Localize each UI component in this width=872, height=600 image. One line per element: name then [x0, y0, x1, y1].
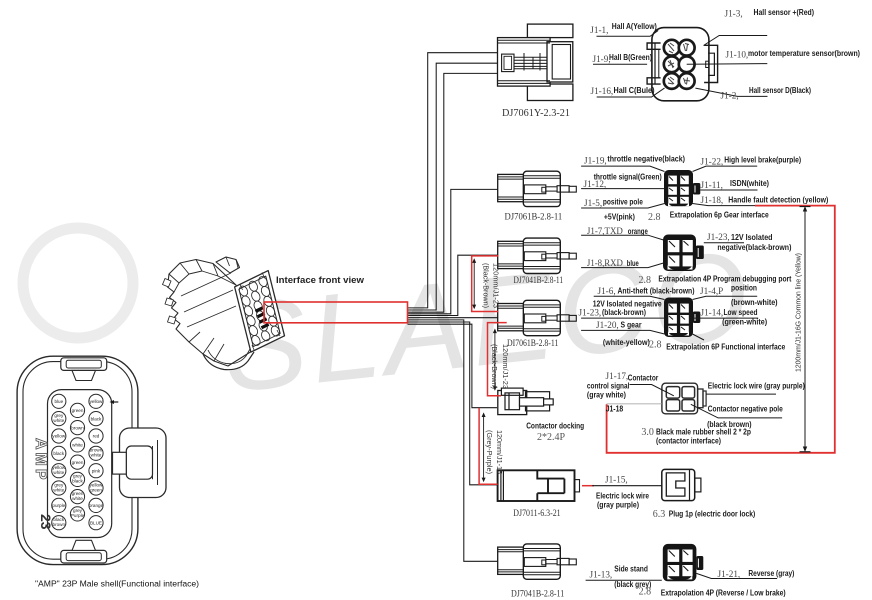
line J1-14: [694, 317, 759, 319]
watermark: [23, 225, 759, 419]
svg-text:J1-8,RXD: J1-8,RXD: [587, 258, 623, 268]
red wire 120mm J1-15 loop C: [479, 408, 497, 484]
bottom row label lines: [586, 573, 778, 580]
svg-text:white: white: [53, 418, 64, 423]
svg-text:ISDN(white): ISDN(white): [730, 179, 769, 188]
line J1-9: [593, 63, 647, 65]
svg-text:(black-brown): (black-brown): [602, 308, 646, 317]
svg-text:J1-11,: J1-11,: [701, 180, 723, 190]
line J1-20: [581, 330, 664, 334]
svg-text:black: black: [72, 479, 83, 484]
wire functional-row: [408, 317, 499, 319]
debug row label lines: [581, 235, 744, 267]
svg-text:Extrapolation 4P Program debug: Extrapolation 4P Program debugging port: [658, 275, 791, 284]
line J1-22: [693, 166, 758, 171]
svg-text:Hall A(Yellow): Hall A(Yellow): [612, 22, 657, 31]
svg-text:J1-1,: J1-1,: [590, 25, 608, 35]
svg-text:S gear: S gear: [621, 321, 642, 330]
svg-text:Black male rubber shell 2 * 2p: Black male rubber shell 2 * 2p: [656, 428, 751, 437]
wire J1-hall A (top connector to harness): [408, 53, 498, 308]
face corner marks: [240, 273, 280, 352]
svg-text:Side stand: Side stand: [614, 565, 648, 574]
connector Extrapolation 4P Program debugging port: [663, 235, 704, 272]
connector DJ7061B-2.8-11 row3: [498, 300, 577, 335]
AMP bottom tab: [61, 550, 107, 563]
svg-text:J1-5,: J1-5,: [584, 198, 602, 208]
svg-text:2.8: 2.8: [639, 587, 652, 598]
svg-text:Plug 1p (electric door lock): Plug 1p (electric door lock): [669, 510, 756, 519]
svg-text:red: red: [93, 434, 100, 439]
svg-text:Electric lock wire: Electric lock wire: [596, 492, 649, 501]
svg-text:green: green: [72, 408, 84, 413]
line J1-16: [597, 88, 665, 97]
line J1-18 black part: [693, 204, 756, 206]
svg-text:120mm/J1-15: 120mm/J1-15: [495, 430, 504, 474]
dimension line 1200mm: [800, 206, 811, 452]
svg-text:J1-17,: J1-17,: [606, 371, 629, 381]
svg-text:Hall sensor D(Black): Hall sensor D(Black): [749, 86, 811, 95]
svg-text:green: green: [90, 487, 102, 492]
svg-text:High level brake(purple): High level brake(purple): [724, 156, 801, 165]
line control signal: [630, 385, 674, 396]
svg-text:J1-18,: J1-18,: [701, 195, 724, 205]
connector DJ7011-6.3-21: [498, 470, 580, 501]
pins in red zone: [255, 306, 270, 329]
svg-text:J1-23,: J1-23,: [707, 232, 730, 242]
svg-text:Extrapolation 4P (Reverse / Lo: Extrapolation 4P (Reverse / Low brake): [661, 589, 786, 598]
connector Contactor docking 2*2.4P: [498, 388, 553, 415]
svg-text:120mm/J1-23: 120mm/J1-23: [501, 344, 510, 389]
line J1-7: [581, 235, 663, 240]
svg-text:black: black: [91, 416, 102, 421]
bottom latch arm: [203, 352, 254, 370]
svg-text:(Grey-Purple): (Grey-Purple): [485, 430, 494, 474]
svg-text:J1-12,: J1-12,: [584, 179, 607, 189]
svg-text:blue: blue: [627, 259, 639, 268]
svg-text:J1-14,: J1-14,: [701, 308, 724, 318]
AMP top tab: [61, 358, 107, 371]
red wire 120mm J1-23 loop A: [472, 256, 499, 312]
line J1-18 thin: [607, 403, 662, 405]
svg-text:black: black: [53, 451, 64, 456]
svg-text:Interface front view: Interface front view: [276, 275, 365, 286]
svg-text:green: green: [72, 460, 84, 465]
svg-text:Contactor: Contactor: [628, 374, 659, 383]
svg-text:white: white: [91, 453, 102, 458]
wire debug-port row: [408, 255, 499, 315]
svg-text:(brown-white): (brown-white): [731, 298, 778, 307]
svg-text:Purple: Purple: [71, 513, 85, 518]
svg-text:control signal: control signal: [587, 382, 630, 391]
line J1-4: [693, 296, 758, 299]
svg-text:pink: pink: [92, 468, 101, 473]
svg-text:Contactor docking: Contactor docking: [526, 422, 584, 431]
svg-text:J1-2,: J1-2,: [721, 91, 739, 101]
wire J1-hall C: [408, 73, 498, 312]
svg-text:J1-19,: J1-19,: [584, 156, 607, 166]
connector Extrapolation 6P Functional interface: [664, 298, 700, 338]
hall pins (6 circles): [664, 40, 695, 89]
line J1-1: [597, 31, 659, 37]
svg-text:Hall B(Green): Hall B(Green): [609, 53, 652, 62]
svg-text:(contactor interface): (contactor interface): [656, 437, 721, 446]
svg-text:DJ7041B-2.8-11: DJ7041B-2.8-11: [514, 275, 564, 285]
svg-text:120mm/J1-23: 120mm/J1-23: [492, 263, 501, 308]
line J1-2: [695, 88, 767, 96]
wire gear-interface row: [408, 189, 499, 313]
svg-text:Reverse (gray): Reverse (gray): [748, 569, 794, 578]
connector Extrapolation 6p Gear interface: [664, 170, 700, 206]
hall connector right tab: [704, 45, 718, 82]
svg-text:blue: blue: [54, 399, 63, 404]
svg-text:Anti-theft (black-brown): Anti-theft (black-brown): [618, 287, 695, 296]
AMP pins col2: [70, 403, 84, 521]
connector AMP 23P male shell: [17, 356, 166, 564]
svg-text:+5V(pink): +5V(pink): [604, 213, 635, 222]
svg-text:white: white: [72, 496, 83, 501]
diagonal functional bottom-right: [693, 334, 705, 340]
svg-text:yellow: yellow: [90, 399, 103, 404]
line J1-6: [594, 296, 665, 299]
connector DJ7041B-2.8-11 bottom: [498, 544, 577, 579]
svg-text:J1-9,: J1-9,: [593, 54, 611, 64]
dimension line A: [472, 258, 476, 309]
svg-text:purple: purple: [52, 503, 65, 508]
line J1-23 debug: [704, 242, 744, 244]
svg-text:2.8: 2.8: [639, 275, 652, 286]
svg-text:J1-16,: J1-16,: [591, 86, 614, 96]
AMP right latch: [120, 428, 167, 498]
connector contactor 2x2: [662, 383, 706, 414]
line J1-5: [581, 204, 664, 209]
AMP pin panel: [48, 390, 112, 538]
svg-text:Electric lock wire (gray purpl: Electric lock wire (gray purple): [708, 382, 805, 391]
svg-text:yellow: yellow: [52, 434, 65, 439]
svg-text:white: white: [72, 443, 83, 448]
front face: [235, 271, 285, 353]
svg-text:J1-22,: J1-22,: [701, 157, 724, 167]
top latch bump: [216, 257, 240, 273]
wire J1-15 black part: [592, 485, 662, 487]
svg-text:brown: brown: [71, 425, 84, 430]
svg-text:position: position: [731, 284, 757, 293]
connector hall sensor 6-pin round: [647, 28, 718, 101]
svg-text:J1-23,: J1-23,: [579, 308, 602, 318]
contactor label lines: [607, 385, 783, 418]
svg-text:DJ7011-6.3-21: DJ7011-6.3-21: [513, 508, 561, 518]
svg-text:J1-3,: J1-3,: [725, 9, 743, 19]
svg-text:Low speed: Low speed: [724, 308, 758, 317]
svg-text:2.8: 2.8: [649, 340, 662, 351]
hall label lines: [593, 31, 768, 98]
svg-text:BLUE: BLUE: [90, 520, 102, 525]
AMP pins col3: [89, 394, 103, 530]
svg-text:DJ7041B-2.8-11: DJ7041B-2.8-11: [511, 589, 565, 599]
dimension line C: [482, 412, 486, 482]
svg-text:positive pole: positive pole: [603, 198, 643, 207]
svg-text:3.0: 3.0: [641, 427, 654, 438]
svg-text:J1-13,: J1-13,: [590, 570, 613, 580]
svg-text:Contactor negative pole: Contactor negative pole: [708, 405, 783, 414]
connector DJ7041B-2.8-11 row2: [498, 238, 577, 273]
line J1-21: [696, 573, 777, 578]
svg-text:(gray white): (gray white): [587, 391, 626, 400]
svg-text:Handle fault detection (yellow: Handle fault detection (yellow): [728, 196, 828, 205]
svg-text:Extrapolation 6P Functional in: Extrapolation 6P Functional interface: [666, 343, 785, 352]
dimension line B: [493, 329, 497, 391]
wire J1-hall B: [408, 63, 498, 310]
wire electric-lock row: [408, 322, 499, 485]
line J1-3: [704, 36, 768, 46]
line J1-8: [581, 263, 663, 268]
svg-text:J1-10,: J1-10,: [726, 50, 749, 60]
svg-text:1200mm/J1-16G Common line (Yel: 1200mm/J1-16G Common line (Yellow): [796, 253, 803, 372]
svg-text:AMP: AMP: [32, 438, 49, 483]
svg-text:"AMP" 23P Male shell(Functiona: "AMP" 23P Male shell(Functional interfac…: [35, 579, 199, 589]
connector DJ7061B-2.8-11 row1: [498, 171, 577, 206]
line J1-23b: [581, 317, 664, 319]
wire bottom 4P row: [408, 320, 499, 561]
AMP pin color names: [52, 399, 103, 527]
svg-text:white: white: [53, 470, 64, 475]
svg-text:orange: orange: [89, 503, 104, 508]
svg-text:J1-7,TXD: J1-7,TXD: [587, 226, 623, 236]
svg-text:throttle negative(black): throttle negative(black): [607, 155, 685, 164]
AMP pin1 arrow: [110, 400, 119, 404]
svg-text:DJ7061Y-2.3-21: DJ7061Y-2.3-21: [502, 107, 570, 119]
face pin holes: [238, 275, 281, 347]
connector Extrapolation 4P bottom: [663, 544, 704, 581]
svg-text:(Black-Brown): (Black-Brown): [490, 344, 499, 389]
svg-text:J1-6,: J1-6,: [598, 286, 616, 296]
svg-text:negative(black-brown): negative(black-brown): [717, 243, 791, 252]
wire contactor row: [408, 324, 498, 408]
svg-text:J1-15,: J1-15,: [605, 475, 628, 485]
svg-text:Hall sensor +(Red): Hall sensor +(Red): [754, 8, 815, 17]
left small tabs: [163, 279, 177, 325]
line contactor negative pole: [691, 404, 782, 418]
hall connector left latch: [647, 43, 661, 84]
svg-text:orange: orange: [628, 227, 648, 236]
svg-text:J1-20,: J1-20,: [596, 320, 619, 330]
red wire 120mm J1-23 loop B: [488, 323, 507, 396]
svg-text:(Black-Brown): (Black-Brown): [482, 263, 491, 308]
svg-text:2.8: 2.8: [648, 212, 661, 223]
connector DJ7061Y-2.3-21: [498, 24, 573, 100]
svg-text:6.3: 6.3: [653, 509, 666, 520]
red wire J1-15 to plug: [582, 485, 594, 487]
svg-text:Extrapolation 6p Gear interfac: Extrapolation 6p Gear interface: [670, 211, 769, 220]
AMP pins col1: [52, 394, 66, 530]
svg-text:motor temperature sensor(brown: motor temperature sensor(brown): [748, 49, 860, 58]
line J1-12: [581, 188, 664, 190]
svg-text:(green-white): (green-white): [722, 318, 767, 327]
hall center line: [687, 63, 768, 66]
line electric lock wire: [706, 393, 776, 395]
svg-text:brown: brown: [53, 522, 66, 527]
red common line box (1200mm J1-16G): [607, 206, 835, 453]
svg-text:12V Isolated: 12V Isolated: [731, 233, 773, 242]
line J1-13: [586, 579, 662, 581]
svg-text:J1-18: J1-18: [606, 405, 624, 414]
svg-text:DI7061B-2.8-11: DI7061B-2.8-11: [507, 338, 559, 348]
rear housing body: [168, 260, 253, 367]
line J1-11: [700, 189, 757, 191]
svg-text:Hall C(Bule): Hall C(Bule): [614, 86, 655, 95]
red interface callout box: [264, 302, 408, 323]
functional row label lines: [581, 296, 758, 340]
svg-text:DJ7061B-2.8-11: DJ7061B-2.8-11: [505, 212, 563, 222]
connector Plug 1p electric door lock: [662, 469, 701, 500]
svg-text:2*2.4P: 2*2.4P: [537, 432, 566, 443]
interface front view 3D connector: [163, 257, 285, 370]
svg-text:J1-21,: J1-21,: [718, 569, 741, 579]
svg-text:white: white: [53, 487, 64, 492]
svg-text:(white-yellow): (white-yellow): [603, 338, 650, 347]
line J1-19: [581, 166, 664, 171]
svg-text:J1-4,P: J1-4,P: [700, 286, 723, 296]
svg-text:(gray purple): (gray purple): [597, 501, 639, 510]
gear row label lines: [581, 166, 757, 208]
